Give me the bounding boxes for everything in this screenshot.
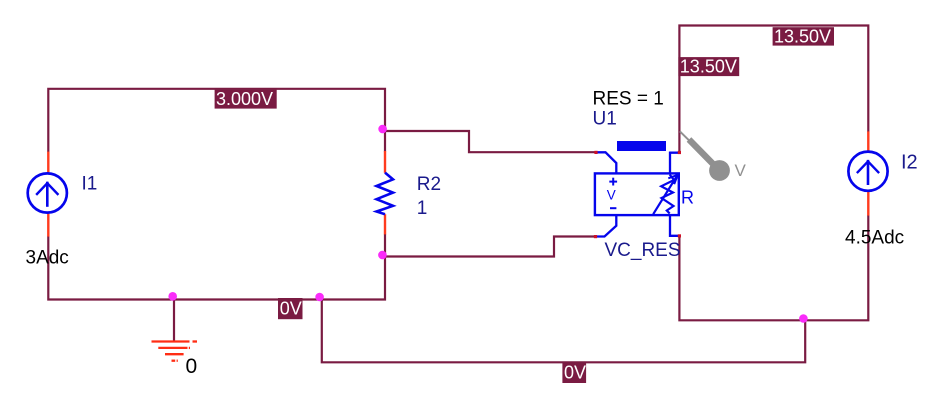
svg-text:3Adc: 3Adc	[26, 248, 69, 269]
bias label 13.50V top	[773, 26, 834, 46]
label VC_RES	[605, 240, 681, 261]
vc resistor U1 top bar	[617, 141, 666, 151]
svg-text:1: 1	[417, 198, 428, 219]
current source I2	[848, 152, 887, 191]
junction node R2 top	[378, 125, 387, 134]
wire right loop top	[679, 26, 868, 153]
U1 pin end dots	[594, 151, 681, 238]
value 4.5Adc	[845, 227, 904, 248]
pin stub I1 top	[47, 152, 49, 174]
svg-text:0V: 0V	[564, 362, 586, 382]
value 3Adc	[26, 248, 69, 269]
label U1	[593, 109, 617, 130]
junction node bottom branch	[315, 293, 324, 302]
probe label V	[735, 161, 747, 180]
svg-text:R: R	[681, 187, 694, 207]
pin stub R2 bottom	[384, 214, 386, 234]
svg-text:VC_RES: VC_RES	[605, 240, 681, 261]
svg-text:3.000V: 3.000V	[216, 89, 273, 109]
wire left loop top and verticals	[48, 89, 385, 152]
U1 minus mark	[610, 207, 616, 209]
svg-text:I1: I1	[82, 174, 98, 195]
label I2	[901, 152, 918, 174]
svg-text:V: V	[735, 161, 747, 180]
ground net name 0	[186, 355, 198, 378]
pin stub I2 bottom	[867, 191, 869, 216]
label RES = 1	[593, 89, 664, 110]
svg-text:R2: R2	[417, 174, 441, 195]
vc resistor U1 body	[595, 173, 679, 215]
svg-text:I2: I2	[901, 152, 918, 174]
U1 variable resistor element	[653, 175, 677, 215]
label R	[681, 187, 694, 207]
pin stub I1 bottom	[47, 213, 49, 237]
junction node right bottom	[799, 314, 808, 323]
junction node ground	[168, 292, 177, 301]
svg-text:RES = 1: RES = 1	[593, 89, 664, 110]
U1 pin 3 (top right)	[670, 153, 679, 174]
voltage probe	[680, 131, 730, 181]
bias label 0V right	[562, 362, 586, 383]
U1 pin 1 (top left)	[596, 152, 616, 173]
label I1	[82, 174, 98, 195]
svg-text:0: 0	[186, 355, 198, 378]
svg-text:13.50V: 13.50V	[680, 57, 737, 77]
wire left loop bottom rail	[48, 234, 385, 300]
U1 V mark	[607, 188, 616, 203]
svg-text:4.5Adc: 4.5Adc	[845, 227, 904, 248]
junction node R2 bottom	[378, 251, 387, 260]
svg-text:0V: 0V	[280, 299, 302, 319]
U1 plus mark	[609, 178, 617, 186]
bias label 0V left	[278, 298, 303, 319]
bias label 13.50V left	[678, 57, 739, 77]
wire R2 top branch to U1 pin 1	[385, 131, 596, 152]
current source I1	[28, 173, 67, 212]
bias label 3.000V	[215, 89, 277, 109]
svg-text:13.50V: 13.50V	[774, 26, 831, 46]
svg-text:V: V	[607, 188, 616, 203]
pin stub I2 top	[867, 131, 869, 152]
label R2	[417, 174, 441, 195]
ground symbol 0	[152, 342, 198, 361]
value 1	[417, 198, 428, 219]
resistor R2	[377, 173, 394, 215]
wire right loop bottom	[679, 215, 868, 320]
U1 pin 4 (bottom right)	[670, 215, 679, 236]
wire R2 bottom branch to U1 pin 2	[385, 237, 596, 257]
U1 pin 2 (bottom left)	[596, 215, 617, 236]
wire ground stem	[173, 297, 175, 342]
pin stub R2 top	[384, 151, 386, 173]
wire bottom return net	[322, 300, 805, 363]
U1 arrow head	[668, 175, 678, 184]
svg-text:U1: U1	[593, 109, 617, 130]
